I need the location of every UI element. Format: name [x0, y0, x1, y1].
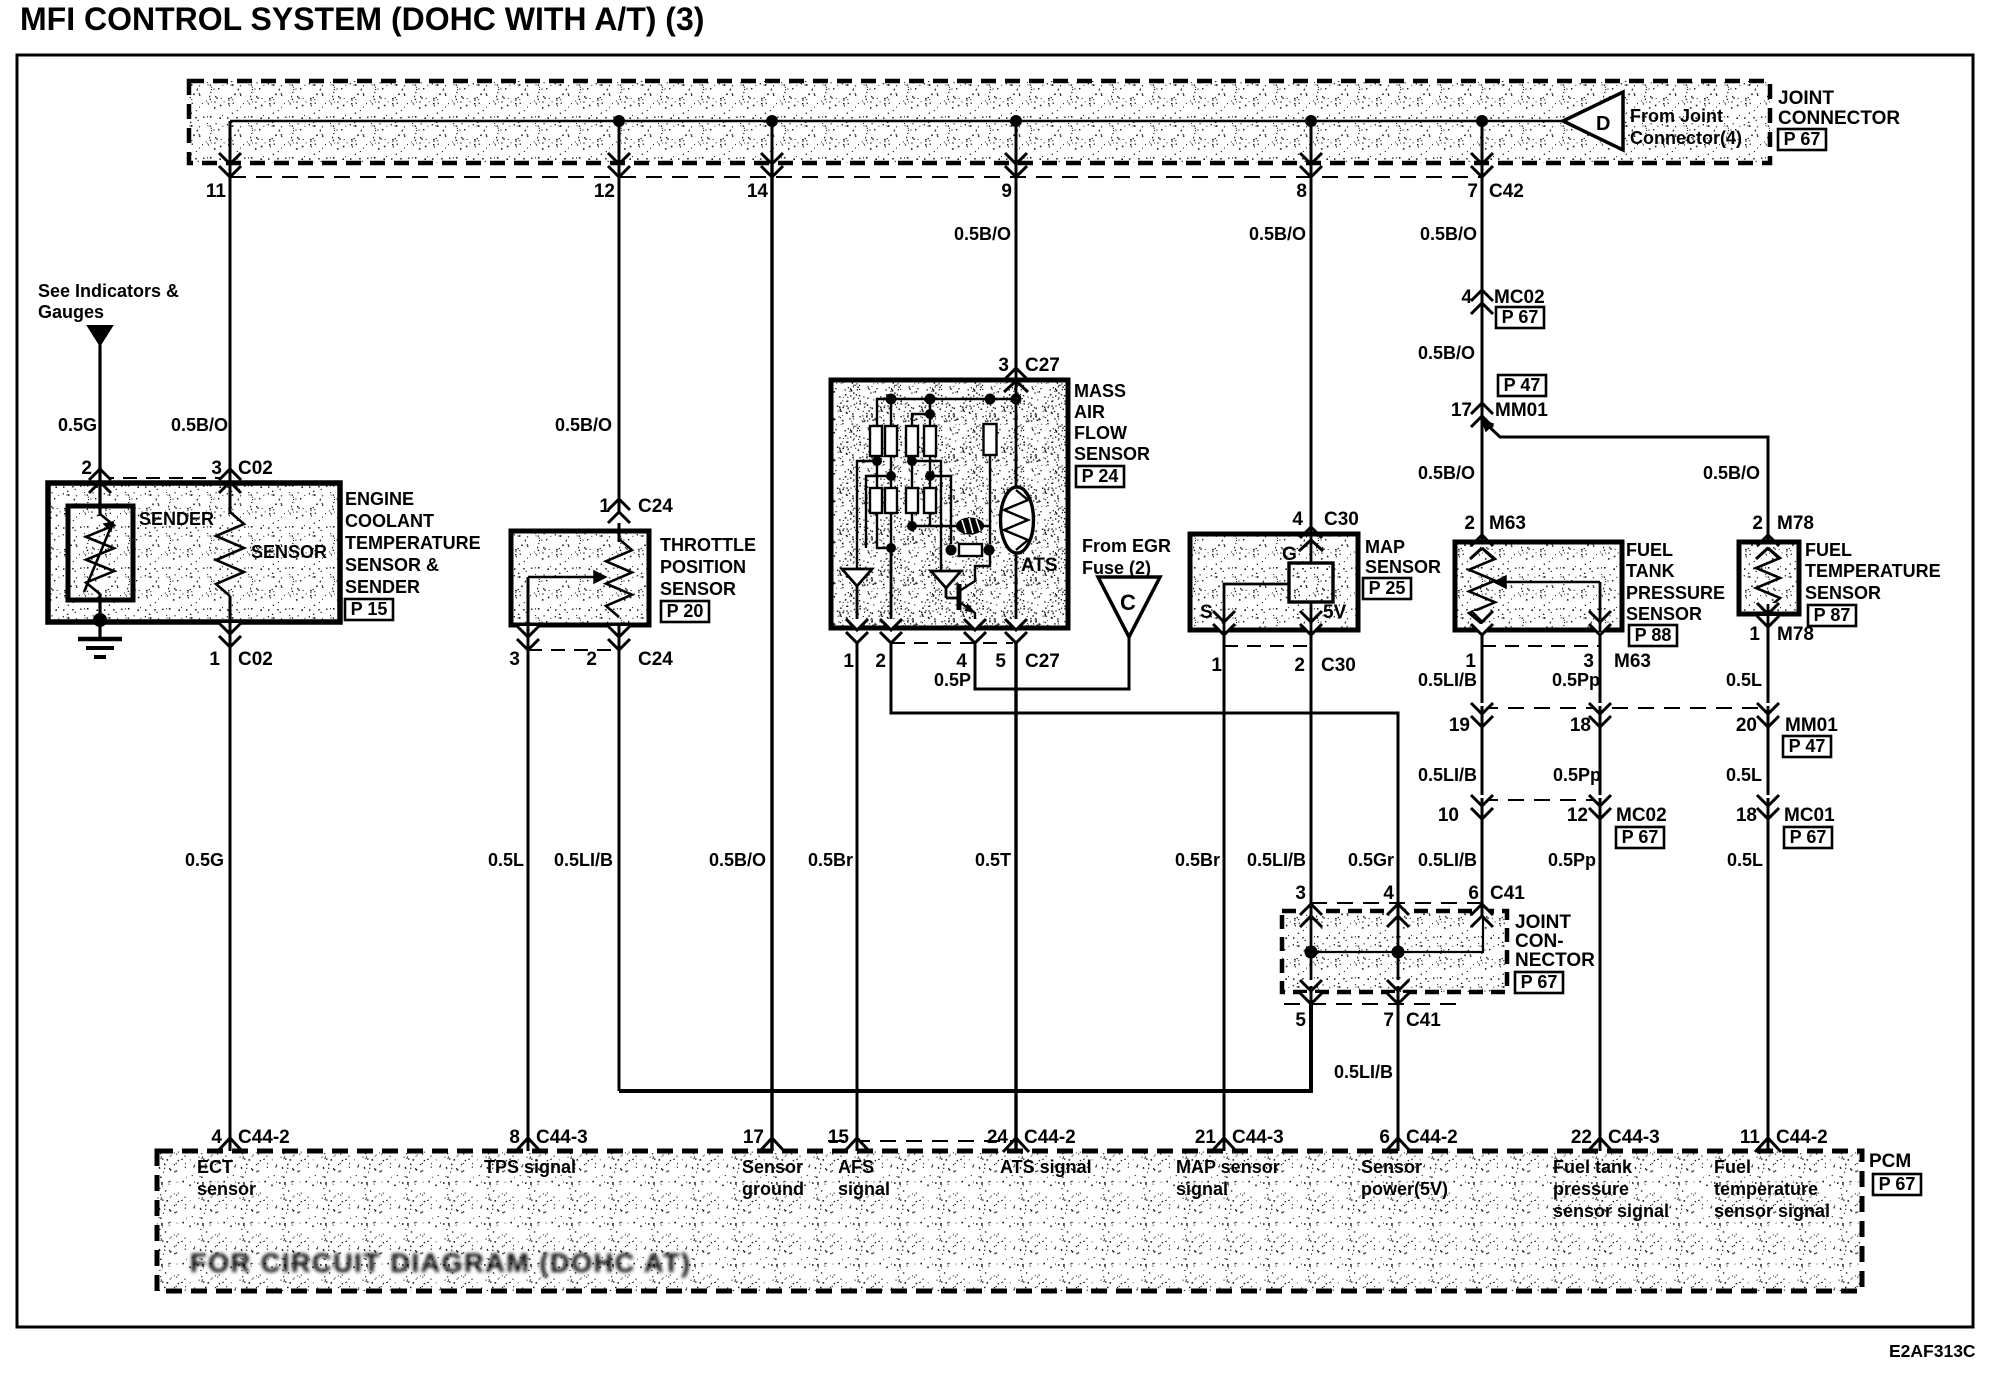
svg-text:0.5B/O: 0.5B/O: [954, 224, 1011, 244]
svg-text:MM01: MM01: [1785, 715, 1838, 736]
svg-text:SENSOR: SENSOR: [1074, 444, 1150, 464]
page ref P 67 (PCM): [1873, 1174, 1921, 1195]
MAF wires below resistor row 1: [876, 456, 878, 488]
node: bus junction at pin 8: [1305, 115, 1317, 127]
PCM pin 6 entry: [1385, 1138, 1411, 1152]
svg-text:FLOW: FLOW: [1074, 423, 1127, 443]
svg-text:Gauges: Gauges: [38, 302, 104, 322]
svg-text:ATS signal: ATS signal: [1000, 1157, 1092, 1177]
pin 12 arrow (C42): [608, 153, 630, 164]
svg-text:M78: M78: [1777, 513, 1814, 534]
node: junction coil branch: [907, 521, 917, 531]
svg-text:21: 21: [1195, 1127, 1217, 1148]
page ref P 67 (MC02): [1496, 307, 1544, 328]
node: junction col D: [925, 471, 935, 481]
svg-text:P 47: P 47: [1789, 736, 1826, 756]
node: bus junction at pin 7: [1476, 115, 1488, 127]
svg-text:10: 10: [1438, 805, 1459, 826]
svg-text:5: 5: [1295, 1010, 1306, 1031]
pin 19 arrow (MM01): [1471, 703, 1493, 714]
svg-text:TANK: TANK: [1626, 561, 1675, 581]
MAF wires below resistor row 2: [877, 513, 891, 548]
PCM pin 22 entry: [1587, 1138, 1613, 1152]
page ref P 88 (FTP): [1629, 625, 1677, 646]
svg-text:3: 3: [509, 649, 520, 670]
svg-text:temperature: temperature: [1714, 1179, 1818, 1199]
svg-text:P 67: P 67: [1879, 1174, 1916, 1194]
svg-text:0.5B/O: 0.5B/O: [171, 415, 228, 435]
svg-text:2: 2: [875, 651, 886, 672]
svg-text:M63: M63: [1489, 513, 1526, 534]
node: comparator left: [946, 545, 957, 556]
svg-text:11: 11: [1740, 1127, 1761, 1148]
svg-text:ground: ground: [742, 1179, 804, 1199]
wire stubs through connector arrows: [229, 142, 232, 177]
page ref P 15 (ECT): [345, 599, 393, 620]
connector C41 pin bar top (thin dashed): [1311, 902, 1482, 904]
node: MAF bus junction 1: [886, 394, 897, 405]
branch col D to comparator: [930, 476, 951, 544]
TPS wiper arm with arrow: [528, 576, 594, 579]
wire: MC02 10 down to C41 pin 6 (0.5LI/B): [1481, 824, 1484, 903]
wire: ECT pin 1 to PCM pin 4 (0.5G): [229, 622, 232, 1151]
svg-text:MC02: MC02: [1616, 805, 1667, 826]
node: bus junction at pin 14: [766, 115, 778, 127]
PCM pin 17 entry: [759, 1138, 785, 1152]
MAF resistor R6: [870, 488, 882, 513]
wire: pin 4 to element: [1310, 534, 1313, 563]
page ref P 47 (MM01): [1498, 375, 1546, 396]
wire: bus drop at pin 8: [1310, 121, 1313, 165]
svg-text:SENSOR: SENSOR: [660, 579, 736, 599]
MAF resistor R8: [906, 488, 918, 513]
wire: C41 pin 7 to PCM pin 6 (0.5LI/B): [1397, 1004, 1400, 1151]
MAP sensing element (inner box): [1289, 563, 1333, 602]
svg-text:0.5Pp: 0.5Pp: [1553, 765, 1601, 785]
svg-text:From EGR: From EGR: [1082, 536, 1171, 556]
wire: MC01 18 down to PCM pin 11 (0.5L): [1767, 824, 1770, 1151]
wire: bus drop at pin 12: [618, 121, 621, 165]
svg-text:C44-2: C44-2: [238, 1127, 290, 1148]
svg-text:1: 1: [599, 496, 610, 517]
svg-text:0.5LI/B: 0.5LI/B: [1418, 765, 1477, 785]
MAF comparator resistor (horizontal): [959, 544, 982, 556]
svg-text:C30: C30: [1324, 509, 1359, 530]
node: junction pin2 feed: [886, 543, 896, 553]
svg-text:MAP sensor: MAP sensor: [1176, 1157, 1280, 1177]
svg-text:C24: C24: [638, 649, 673, 670]
svg-text:2: 2: [1752, 513, 1763, 534]
svg-text:7: 7: [1467, 181, 1478, 202]
MAF resistor R7: [885, 488, 897, 513]
svg-text:power(5V): power(5V): [1361, 1179, 1448, 1199]
svg-text:P 87: P 87: [1814, 605, 1851, 625]
svg-text:0.5Br: 0.5Br: [1175, 850, 1220, 870]
svg-text:20: 20: [1736, 715, 1757, 736]
svg-text:7: 7: [1383, 1010, 1394, 1031]
svg-text:signal: signal: [838, 1179, 890, 1199]
wire: col B to MAF pin 2: [890, 548, 893, 628]
svg-text:C27: C27: [1025, 355, 1060, 376]
svg-text:Sensor: Sensor: [742, 1157, 803, 1177]
svg-text:0.5Gr: 0.5Gr: [1348, 850, 1394, 870]
arrow to indicators (filled triangle): [88, 326, 112, 345]
fuel temp thermistor resistor: [1756, 548, 1780, 608]
ground triangle 1 (MAF): [842, 569, 872, 586]
node: MAF bus junction 3: [985, 394, 996, 405]
MAF resistor R1: [870, 426, 882, 456]
wire: TPS pin 2 down to 5V feed joint: [618, 625, 621, 1091]
svg-text:AIR: AIR: [1074, 402, 1105, 422]
svg-text:12: 12: [594, 181, 615, 202]
MAF resistor R9: [924, 488, 936, 513]
branch to ground arm (left): [857, 461, 877, 569]
wire: FTP pin 1 down (0.5LI/B): [1481, 635, 1484, 708]
svg-text:1: 1: [209, 649, 220, 670]
svg-text:0.5Br: 0.5Br: [808, 850, 853, 870]
mass air flow sensor box: [831, 380, 1068, 628]
svg-text:P 25: P 25: [1369, 578, 1406, 598]
triangle C (from EGR fuse): [1098, 577, 1160, 637]
svg-text:2: 2: [1464, 513, 1475, 534]
svg-text:FOR CIRCUIT DIAGRAM (DOHC AT): FOR CIRCUIT DIAGRAM (DOHC AT): [190, 1248, 690, 1278]
PCM pin 15 entry: [844, 1138, 870, 1152]
pin 3 arrow (C41): [1300, 904, 1322, 915]
wire: C41 pin 5 to TPS 5V feed (0.5LI/B): [619, 1004, 1311, 1091]
PCM AFS/ATS pin bar (thin dashed): [828, 1140, 1014, 1142]
pin 18 arrow (MC01): [1757, 795, 1779, 806]
svg-text:JOINT: JOINT: [1778, 88, 1834, 109]
wire: MAP pin 2 down to C41 pin 3 (0.5LI/B): [1310, 630, 1313, 903]
svg-text:JOINT: JOINT: [1515, 912, 1571, 933]
MAF bridge stub wires: [890, 399, 892, 426]
MAP signal takeoff wire (S): [1224, 584, 1289, 630]
wire: bus drop at pin 9: [1015, 121, 1018, 165]
pin 1 arrow out of MAF: [846, 619, 868, 630]
svg-text:11: 11: [206, 181, 227, 202]
svg-text:1: 1: [1749, 624, 1760, 645]
svg-text:SENDER: SENDER: [139, 509, 214, 529]
svg-text:E2AF313C: E2AF313C: [1889, 1341, 1976, 1361]
pin 1 arrow out of fuel temp sensor: [1757, 603, 1779, 614]
svg-text:0.5L: 0.5L: [1726, 670, 1762, 690]
wire: bus drop at pin 14: [771, 121, 774, 165]
svg-text:See Indicators &: See Indicators &: [38, 281, 179, 301]
sender thermistor (resistor with arrow): [86, 514, 114, 594]
svg-text:CONNECTOR: CONNECTOR: [1778, 108, 1900, 129]
svg-text:3: 3: [998, 355, 1009, 376]
pin 3 arrow out of FTP: [1589, 611, 1611, 622]
svg-text:SENSOR: SENSOR: [1365, 557, 1441, 577]
pin 7 arrow (C41): [1387, 980, 1409, 991]
node: sender ground junction: [93, 613, 107, 627]
svg-text:S: S: [1200, 602, 1213, 623]
svg-text:C24: C24: [638, 496, 673, 517]
connector C30 pin bar (dashed): [1224, 645, 1311, 647]
node: C41 junction pin4/7: [1392, 946, 1405, 959]
svg-text:sensor signal: sensor signal: [1714, 1201, 1830, 1221]
connector C24 pin 1 arrows: [608, 512, 630, 523]
connector C27 pin bar (dashed): [891, 642, 1013, 644]
wire: MAF pin 5 to PCM pin 24 (0.5T ATS signal): [1014, 643, 1017, 1151]
MAP sensor box: [1190, 534, 1358, 630]
pin 1 arrow out of MAP: [1213, 611, 1235, 622]
node: bus junction at pin 9: [1010, 115, 1022, 127]
PCM box (dashed): [157, 1151, 1862, 1291]
PCM pin 24 entry: [1003, 1138, 1029, 1152]
page ref P 67 (joint connector): [1778, 129, 1826, 150]
page ref P 67 (MC01): [1784, 827, 1832, 848]
wire: MAP pin 1 to PCM pin 21 (0.5Br): [1223, 630, 1226, 1151]
svg-text:0.5B/O: 0.5B/O: [1418, 463, 1475, 483]
svg-text:C44-2: C44-2: [1024, 1127, 1076, 1148]
svg-text:sensor: sensor: [197, 1179, 256, 1199]
pin 14 arrow (C42): [761, 153, 783, 164]
svg-text:4: 4: [1292, 509, 1303, 530]
MAF resistor R4: [924, 426, 936, 456]
branch col C to middle arm: [912, 461, 941, 571]
pin 2 arrow out of MAP: [1300, 611, 1322, 622]
svg-text:0.5B/O: 0.5B/O: [555, 415, 612, 435]
MAF resistor R3: [906, 426, 918, 456]
fuel tank pressure sensor box: [1455, 542, 1622, 630]
svg-text:8: 8: [1296, 181, 1307, 202]
wire: FTP pin 3 down (0.5Pp): [1599, 635, 1602, 708]
svg-text:C02: C02: [238, 649, 273, 670]
wire: bus drop at pin 11: [229, 121, 232, 165]
wire: ECT sensor resistor to pin 1: [229, 596, 232, 622]
pin 5 arrow (C41): [1300, 980, 1322, 991]
pin 1 arrow out of FTP: [1471, 611, 1493, 622]
FTP potentiometer resistor: [1469, 548, 1495, 624]
pin 7 arrow (C42): [1471, 153, 1493, 164]
page ref P 24 (MAF): [1076, 466, 1124, 487]
svg-text:4: 4: [211, 1127, 222, 1148]
svg-text:C27: C27: [1025, 651, 1060, 672]
connector C41 pin bar bottom (thin dashed): [1284, 1003, 1460, 1005]
svg-text:1: 1: [1465, 651, 1476, 672]
wire: bus pin 11 down to ECT pin 3: [229, 165, 232, 483]
pin 2 arrow into fuel temp sensor: [1757, 535, 1779, 546]
svg-text:8: 8: [509, 1127, 520, 1148]
triangle D (from joint connector 4): [1563, 92, 1623, 150]
svg-text:SENSOR: SENSOR: [251, 542, 327, 562]
ground symbol (chassis): [78, 637, 122, 642]
svg-text:P 47: P 47: [1504, 375, 1541, 395]
connector C24 pin bar (dashed): [528, 649, 619, 651]
svg-text:3: 3: [211, 458, 222, 479]
pin 2 arrow into ECT sender: [89, 482, 111, 493]
pin 2 arrow into FTP sensor: [1471, 535, 1493, 546]
svg-text:5V: 5V: [1323, 602, 1347, 623]
svg-text:18: 18: [1736, 805, 1757, 826]
svg-text:3: 3: [1583, 651, 1594, 672]
pin 11 arrow (C42): [219, 153, 241, 164]
svg-text:0.5L: 0.5L: [488, 850, 524, 870]
wire: bus pin 14 to PCM pin 17 (0.5B/O sensor ground): [770, 165, 773, 1151]
svg-text:17: 17: [1451, 400, 1472, 421]
svg-text:9: 9: [1001, 181, 1012, 202]
connector C02 pin bar (dashed) above ECT: [100, 477, 230, 479]
pin 3 arrow out of TPS: [517, 626, 539, 637]
svg-text:MAP: MAP: [1365, 537, 1405, 557]
svg-text:FUEL: FUEL: [1805, 540, 1852, 560]
MAF transistor Q1: [957, 584, 962, 610]
pin 3 arrow into MAF: [1005, 368, 1027, 379]
svg-text:0.5L: 0.5L: [1726, 765, 1762, 785]
svg-text:COOLANT: COOLANT: [345, 511, 434, 531]
svg-text:Connector(4): Connector(4): [1630, 128, 1742, 148]
svg-text:12: 12: [1567, 805, 1588, 826]
svg-text:4: 4: [1383, 883, 1394, 904]
svg-text:POSITION: POSITION: [660, 557, 746, 577]
svg-text:P 15: P 15: [351, 599, 388, 619]
svg-text:2: 2: [586, 649, 597, 670]
svg-text:P 67: P 67: [1790, 827, 1827, 847]
throttle position sensor box: [511, 531, 649, 625]
svg-text:4: 4: [956, 651, 967, 672]
wire: TPS pin 3 to PCM pin 8 (0.5L): [527, 625, 530, 1151]
PCM pin 21 entry: [1211, 1138, 1237, 1152]
svg-text:Fuel: Fuel: [1714, 1157, 1751, 1177]
page ref P 25 (MAP): [1363, 578, 1411, 599]
svg-text:P 20: P 20: [667, 601, 704, 621]
svg-text:D: D: [1596, 113, 1610, 135]
svg-text:PCM: PCM: [1869, 1151, 1911, 1172]
wire: MM01 19 down (0.5LI/B): [1481, 732, 1484, 800]
svg-text:2: 2: [81, 458, 92, 479]
svg-text:1: 1: [1211, 655, 1222, 676]
wire: MAF pin 4 to EGR fuse node (0.5P): [975, 637, 1129, 689]
ECT sensor & sender box: [48, 483, 340, 622]
svg-text:22: 22: [1571, 1127, 1592, 1148]
wire: ATS to MAF pin 5: [1015, 553, 1018, 628]
svg-text:PRESSURE: PRESSURE: [1626, 583, 1725, 603]
connector MM01 pin bar (dashed): [1482, 707, 1768, 709]
svg-text:C42: C42: [1489, 181, 1524, 202]
svg-text:P 67: P 67: [1502, 307, 1539, 327]
page ref P 87 (fuel temp): [1808, 605, 1856, 626]
wire: bus pin 9 down to MAF pin 3 (0.5B/O): [1015, 165, 1018, 380]
svg-text:0.5P: 0.5P: [934, 670, 971, 690]
branch col B loop: [866, 476, 891, 548]
svg-text:0.5B/O: 0.5B/O: [1249, 224, 1306, 244]
pin 3 arrow into ECT sensor: [219, 482, 241, 493]
node: comparator right: [984, 545, 995, 556]
svg-text:MM01: MM01: [1495, 400, 1548, 421]
page ref P 20 (TPS): [661, 601, 709, 622]
svg-text:MC02: MC02: [1494, 287, 1545, 308]
svg-text:4: 4: [1461, 287, 1472, 308]
wire: branch to fuel temperature sensor (0.5B/O): [1482, 420, 1768, 534]
fuel temperature sensor box: [1739, 542, 1799, 614]
node: junction col B: [886, 471, 896, 481]
pin 2 arrow out of TPS: [608, 626, 630, 637]
svg-text:SENDER: SENDER: [345, 577, 420, 597]
svg-text:pressure: pressure: [1553, 1179, 1629, 1199]
svg-text:0.5Pp: 0.5Pp: [1552, 670, 1600, 690]
svg-text:0.5LI/B: 0.5LI/B: [1247, 850, 1306, 870]
svg-text:Fuel tank: Fuel tank: [1553, 1157, 1633, 1177]
svg-text:C30: C30: [1321, 655, 1356, 676]
wire: coil to R5 column: [984, 525, 990, 527]
svg-text:0.5B/O: 0.5B/O: [1420, 224, 1477, 244]
connector MC02 pin bar (dashed): [1482, 799, 1600, 801]
svg-text:0.5Pp: 0.5Pp: [1548, 850, 1596, 870]
svg-text:C44-3: C44-3: [536, 1127, 588, 1148]
svg-text:0.5LI/B: 0.5LI/B: [1418, 670, 1477, 690]
pin 8 arrow (C42): [1300, 153, 1322, 164]
wire: sender to ground inside box: [98, 594, 101, 638]
wire: MAF pin 2 to joint connector C41 pin 4 (0.5Gr): [891, 643, 1398, 903]
node: MAF stub junction: [925, 409, 935, 419]
pin 10 arrow (MC02): [1471, 795, 1493, 806]
page ref P 67 (C41): [1515, 972, 1563, 993]
pin 9 arrow (C42): [1005, 153, 1027, 164]
svg-text:Sensor: Sensor: [1361, 1157, 1422, 1177]
wire: gauge feed down to ECT sender pin 2: [98, 345, 101, 483]
svg-text:P 67: P 67: [1521, 972, 1558, 992]
pin 5 arrow out of MAF: [1005, 619, 1027, 630]
svg-text:From Joint: From Joint: [1630, 106, 1723, 126]
pin 1 arrow out of ECT (C02): [219, 623, 241, 634]
svg-text:ECT: ECT: [197, 1157, 233, 1177]
PCM pin 4 entry: [217, 1138, 243, 1152]
wire: bus pin 8 down to MAP pin 4 (0.5B/O): [1310, 165, 1313, 534]
connector MM01 pin 17 arrows: [1471, 416, 1493, 427]
svg-text:C41: C41: [1406, 1010, 1441, 1031]
pin 2 arrow out of MAF: [880, 619, 902, 630]
pin 4 arrow (C41): [1387, 904, 1409, 915]
svg-text:0.5LI/B: 0.5LI/B: [554, 850, 613, 870]
svg-text:C44-3: C44-3: [1608, 1127, 1660, 1148]
svg-text:0.5T: 0.5T: [975, 850, 1011, 870]
node: bus junction at pin 12: [613, 115, 625, 127]
svg-text:Fuse (2): Fuse (2): [1082, 558, 1151, 578]
svg-text:15: 15: [828, 1127, 850, 1148]
pin 20 arrow (MM01): [1757, 703, 1779, 714]
pin 18 arrow (MM01): [1589, 703, 1611, 714]
svg-text:P 67: P 67: [1784, 129, 1821, 149]
pin 12 arrow (MC02): [1589, 795, 1611, 806]
connector M63 pin bar (dashed): [1482, 645, 1600, 647]
svg-text:C02: C02: [238, 458, 273, 479]
svg-text:FUEL: FUEL: [1626, 540, 1673, 560]
svg-text:2: 2: [1294, 655, 1305, 676]
svg-text:TEMPERATURE: TEMPERATURE: [345, 533, 481, 553]
node: C41 junction pin3/5: [1305, 946, 1318, 959]
svg-text:C44-2: C44-2: [1406, 1127, 1458, 1148]
joint connector C41 dashed box: [1282, 911, 1507, 992]
svg-text:14: 14: [747, 181, 769, 202]
joint connector C42 dashed box (top): [189, 81, 1770, 163]
svg-text:0.5L: 0.5L: [1727, 850, 1763, 870]
svg-text:0.5G: 0.5G: [58, 415, 97, 435]
svg-text:P 24: P 24: [1082, 466, 1119, 486]
svg-text:MFI CONTROL SYSTEM (DOHC WITH: MFI CONTROL SYSTEM (DOHC WITH A/T) (3): [20, 1, 704, 37]
pin 6 arrow (C41): [1471, 904, 1493, 915]
svg-text:6: 6: [1379, 1127, 1390, 1148]
wire: bus drop at pin 7: [1481, 121, 1484, 165]
svg-text:NECTOR: NECTOR: [1515, 950, 1595, 971]
svg-text:sensor signal: sensor signal: [1553, 1201, 1669, 1221]
svg-text:C41: C41: [1490, 883, 1525, 904]
branch wire to coil: [912, 525, 957, 527]
svg-text:0.5B/O: 0.5B/O: [1703, 463, 1760, 483]
wire: bus pin 12 down to TPS (0.5B/O): [618, 165, 621, 531]
svg-text:ATS: ATS: [1021, 555, 1058, 576]
svg-text:0.5LI/B: 0.5LI/B: [1334, 1062, 1393, 1082]
